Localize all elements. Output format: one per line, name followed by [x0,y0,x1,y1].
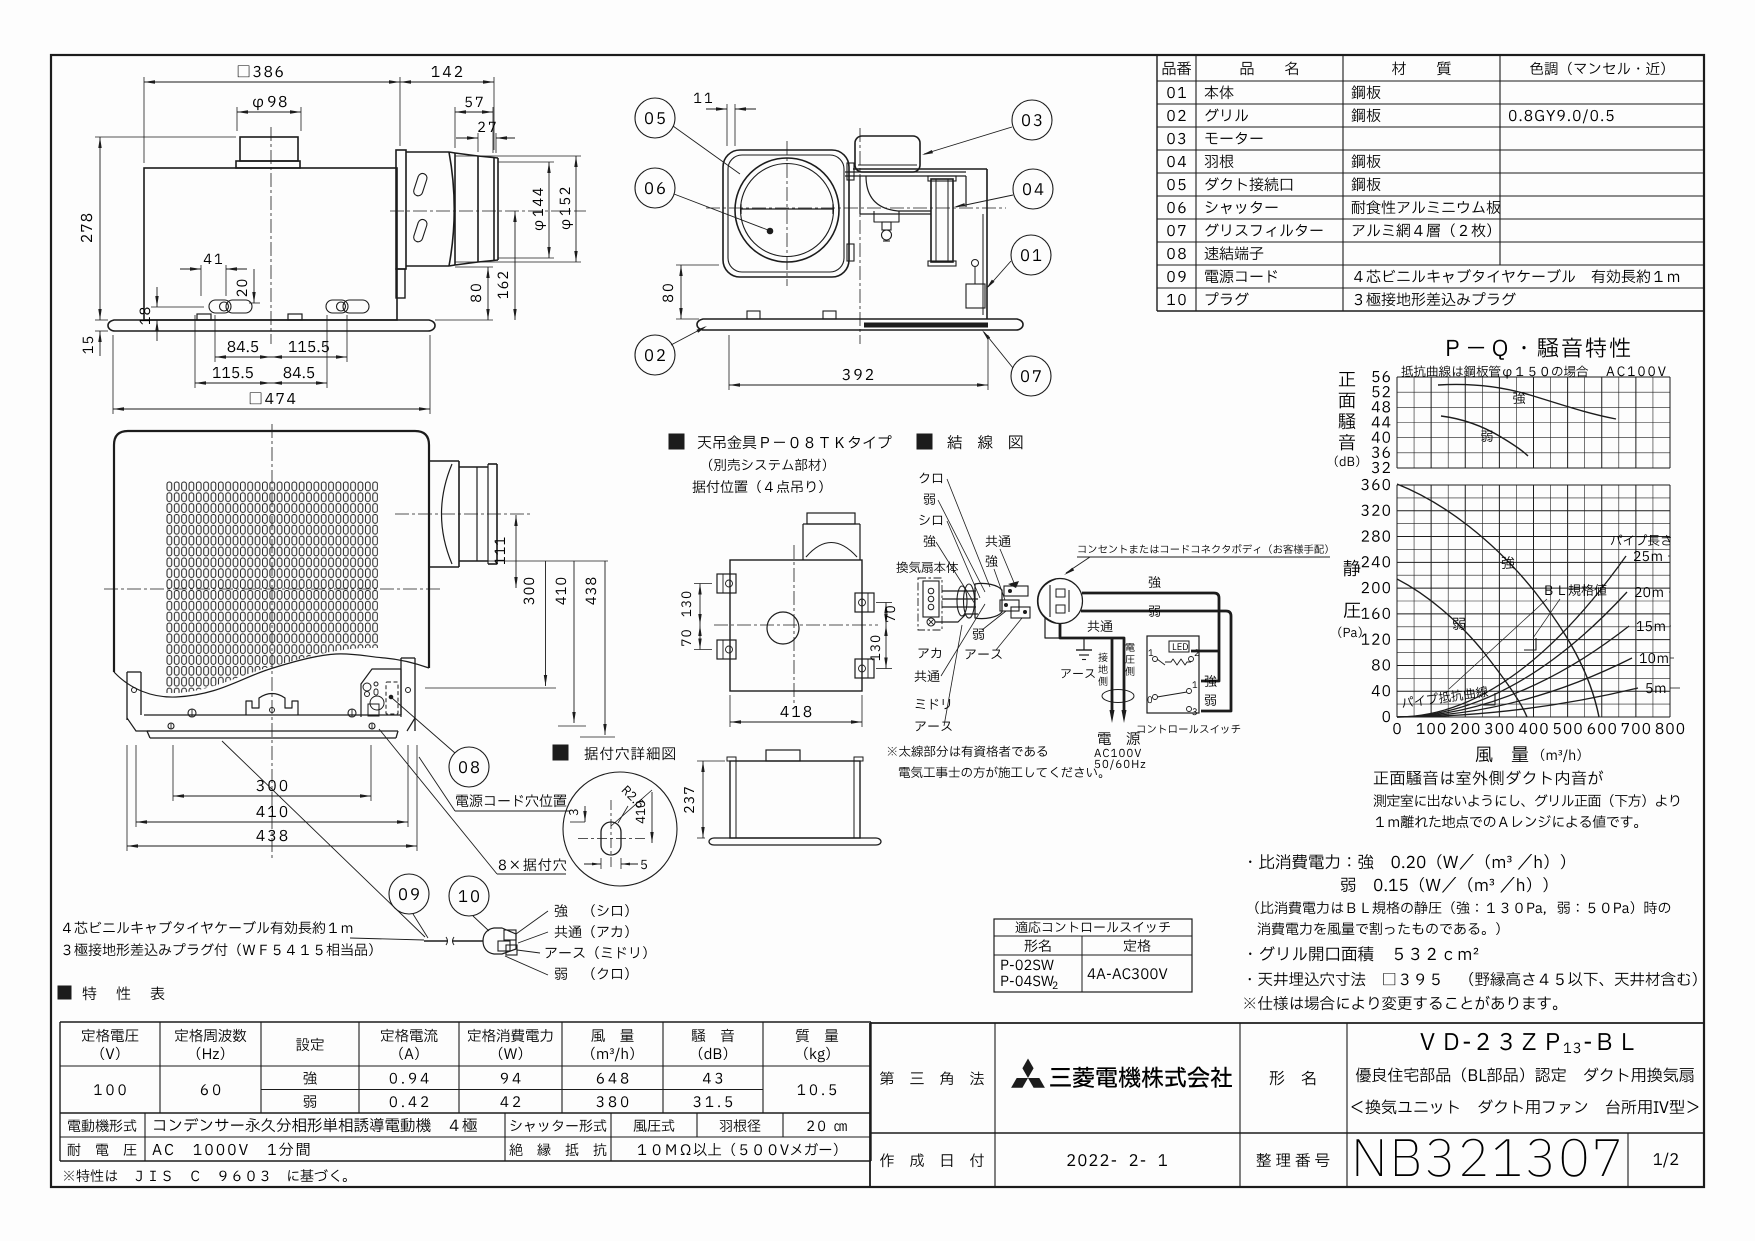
heading 特性表 [58,986,164,1000]
dimension 80 (section view) [663,265,719,319]
dimension 111 [495,515,518,588]
dimension 300 (horizontal) [173,745,371,801]
side view: duct mounting plate [396,150,406,298]
section view: fan scroll casing [845,172,966,214]
pipe length labels 25m-5m [1634,551,1680,693]
bracket top view: duct stub [803,513,860,560]
P-Q curve label 弱 [1453,618,1465,630]
note below graph [1374,770,1680,828]
noise curve label 強 [1513,392,1525,404]
wiring: blade labels lower [965,611,1022,659]
power cord leader line [222,741,425,937]
wiring: cord connector body (female) [1038,579,1083,624]
section view: horizontal centerline [706,207,1006,209]
wiring: switch internal wires [1191,651,1218,706]
noise curve label 弱 [1481,431,1492,442]
note cord length [63,921,424,956]
P-Q chart grid [1397,377,1670,717]
grille cutaway break line (wavy) [114,654,429,697]
bottom view: duct centerline [395,513,530,515]
Mitsubishi three-diamond logo [1011,1059,1045,1088]
BL leader lines [1449,599,1560,705]
wiring: wire color labels left-lower [915,604,985,731]
section view: vertical centerline [859,128,861,344]
wiring: wire name labels left [919,473,942,548]
callout circle 03 [922,100,1052,155]
side view: body slot group left [209,300,252,313]
section view: grille flange 02 [697,319,1023,330]
dimension 410 (horizontal) [136,745,408,827]
bottom view: mounting frame lower edge [144,715,401,738]
bracket top view: unit square [730,560,862,691]
heading 結線図 [917,434,1022,449]
dimension 438 (vertical) [580,561,615,737]
dimension □474 [113,335,430,414]
x-axis label 風量(m3/h) [1476,746,1581,762]
dimension 392 [729,335,988,390]
label BL規格値 [1545,584,1606,596]
dimension φ144 [498,162,554,258]
y-axis label 静圧(Pa) [1338,560,1361,638]
characteristics table 特性表 [60,1022,871,1182]
side view: duct centerline [390,210,586,212]
side view: vertical centerline [270,127,272,344]
section view: shutter opening circles [735,158,839,262]
wiring: label 換気扇本体 [896,561,958,573]
noise curve 強 (top chart) [1438,384,1616,419]
dimension 18 [140,287,204,341]
side view: top duct stub φ98 [236,137,300,168]
note 仕様変更 [1244,996,1557,1010]
dimension 237 [684,761,725,838]
wiring: mains wire 共通 (thick) [1060,620,1124,711]
company name 三菱電機株式会社 [1050,1067,1232,1088]
dimension 115.5 row2 [195,315,271,388]
callout circle 10 [449,876,489,931]
wiring: control switch box [1147,636,1199,715]
bracket dims left 130/70 [681,584,712,650]
dimension φ152 [455,156,581,262]
parts list table (top-right) [1157,55,1704,311]
bottom view: duct stub (bottom view) [429,461,497,567]
wiring: note 太線部分 [888,745,1103,778]
dimension 278 [81,137,236,320]
label パイプ抵抗曲線 [1401,685,1488,709]
dimension 11 (section view) [694,93,756,146]
wiring: plug blades [1000,586,1030,618]
wiring: label コントロールスイッチ [1137,725,1240,734]
bullet 天井埋込穴寸法 [1249,972,1697,986]
dimension 300 (vertical) [425,561,608,688]
dimension □386 [144,66,400,163]
callout circle 08 [392,698,489,787]
bottom view: center spring clamp [246,694,298,716]
bottom view: left bracket [127,672,150,731]
note 抵抗曲線は鋼板管φ150の場合 [1401,365,1588,378]
bottom view: vertical centerline [271,424,273,858]
dimension 84.5 row2 [271,315,327,388]
callout circle 05 [635,98,740,174]
label パイプ長さ [1611,534,1671,545]
wiring: power supply arrows [1098,643,1134,723]
dimension 410 (vertical) [556,561,586,726]
bullet グリル開口面積 [1249,946,1478,961]
bracket dims right 70/130 [870,603,895,669]
bracket side view [709,750,881,845]
P-Q chart axis tick labels [1361,371,1684,734]
dimension 27 [456,122,515,153]
model descriptions [1352,1067,1699,1114]
callout circle 04 [954,169,1053,209]
y-axis label 正面騒音(dB) [1335,372,1360,467]
wiring: mains wire 弱 (thick) [1081,611,1231,711]
bracket top view: center hole [767,612,799,644]
bracket top view: corner brackets [717,574,874,678]
heading 据付穴詳細図 [553,745,675,760]
dimension 80 (duct to flange) [435,267,493,320]
dimension 57 [455,97,493,153]
grille panel outline 02 (bottom view) [114,431,429,672]
grille perforation pattern [166,481,378,693]
side view: mounting feet tabs [197,314,302,320]
dimension 115.5 row1 [271,315,347,362]
label 8×据付穴 [379,729,566,874]
dimension 84.5 row1 [215,315,271,362]
bottom view: electrical terminal box 08 [361,669,401,717]
noise curve 弱 (top chart) [1441,416,1528,456]
wiring: label 電源 [1094,732,1145,770]
side view: body slot group right [326,300,369,313]
document number NB321307 [1357,1139,1619,1177]
plug wire labels [505,904,647,980]
section view: body outline 01 [853,169,987,319]
section view: shutter frame [723,150,849,277]
section view: body feet [747,311,836,319]
dimension 41 [180,254,247,296]
wiring: fan lead wires [935,591,978,622]
P-Q curve 強 [1397,484,1599,717]
dimension φ98 [237,96,301,131]
wiring: plug (male) [957,581,1019,619]
wiring: mains wire 強 (thick) [1082,593,1219,681]
section view: shutter flap line [741,204,833,214]
wiring: label コンセントまたはコードコネクタボディ [1064,544,1330,575]
wiring: blade labels upper [986,535,1015,600]
P-Q curve 弱 [1397,579,1527,717]
dimension 418 [730,695,862,727]
wiring: earth wire and ground [1045,618,1112,711]
pipe resistance curves [1397,556,1638,717]
callout circle 07 [982,330,1051,396]
wiring: labels 強弱 on mains [1149,576,1161,617]
side view: ceiling flange (grille edge) [108,320,435,331]
heading 天吊金具P-08TKタイプ [669,434,892,493]
section view: circle vertical centerline [786,141,788,286]
section view: grease filter 07 (thick) [864,323,988,328]
side view: duct pipe rings [449,152,498,266]
wiring: fan terminal box [918,578,942,630]
P-Q chart title [1447,338,1630,360]
dimension 438 (horizontal) [127,745,417,851]
section view: motor housing 03 [855,136,920,172]
mounting hole detail circle [563,772,677,886]
callout circle 06 [635,168,773,234]
bullet 比消費電力 [1249,854,1670,935]
power cord [424,937,483,945]
plug 10 drawing [483,928,517,955]
side view: housing kidney slots [412,172,428,243]
side view: shutter housing [406,152,454,266]
callout circle 09 [389,874,429,938]
model number VD-23ZP13-BL [1420,1033,1633,1053]
title block grid [870,1023,1704,1188]
section view: motor mount and screw [874,211,899,241]
label AC100V [1606,366,1665,376]
dimension 142 [400,66,494,150]
label 電源コード穴位置 [419,757,570,811]
bottom view: right bracket [401,658,415,731]
dimension 15 [83,331,108,356]
callout circle 02 [635,326,707,375]
wiring: label leader lines [936,479,990,604]
dimension 20 [237,269,260,303]
section view: impeller 04 [928,176,956,266]
bottom view: frame screws [168,709,375,729]
side view: fan body box [144,168,397,320]
bottom view: horizontal centerline (grille) [104,588,440,590]
bracket top view: centerlines [714,545,878,706]
section view: frame side tabs [847,163,854,261]
dimension 162 [498,211,517,320]
control switch table 適応コントロールスイッチ [994,919,1192,992]
P-Q curve label 強 [1502,556,1515,569]
callout circle 01 [986,235,1051,289]
